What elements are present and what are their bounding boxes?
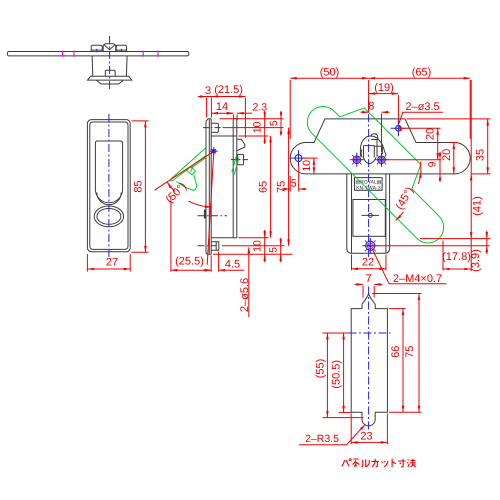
side view: phantom pawl block (green) <box>187 167 196 175</box>
back view: 2-M4x0.7 leader <box>373 250 390 284</box>
back view: inner square <box>353 200 385 237</box>
side view: phantom pawl foot (green) <box>176 175 196 191</box>
front view: dim 27 <box>87 268 130 270</box>
side view: pivot mark <box>212 150 215 153</box>
panel cut: left ext lines <box>323 332 349 334</box>
back view: arm top ext <box>450 142 458 144</box>
svg-text:2–ø3.5: 2–ø3.5 <box>405 101 439 113</box>
back view: 2-dia3.5 leader <box>399 112 403 123</box>
back view: knob neck <box>364 157 377 163</box>
front view: inner bezel <box>90 122 128 249</box>
side view: plate surface mark <box>204 210 206 219</box>
svg-text:20: 20 <box>441 149 453 161</box>
top view: left nut flange line <box>91 49 102 51</box>
svg-text:(19): (19) <box>374 82 394 94</box>
side view: bottom right extension lines <box>239 237 269 239</box>
back view: dim (17.8) extension line <box>442 241 444 271</box>
back view: knob top cap <box>371 134 378 140</box>
back view: dim 20 (lower) <box>453 143 455 174</box>
back view: phantom bottom ext <box>420 238 491 240</box>
back view: bottom screw (M4) <box>366 241 375 250</box>
panel cut: outline <box>351 294 387 426</box>
svg-text:35: 35 <box>475 149 487 161</box>
svg-text:75: 75 <box>276 181 288 193</box>
svg-text:10: 10 <box>252 121 264 133</box>
front view: vertical centerline <box>108 114 110 258</box>
front view: outer bezel <box>87 120 130 252</box>
side view: phantom pawl tip (green) <box>171 178 174 181</box>
side view: phantom pawl edge 1 (green) <box>172 148 206 179</box>
side view: dim 4.5 <box>203 269 211 271</box>
side view: dim 10 (top) <box>264 111 266 144</box>
top view: cam V-notch <box>104 45 116 50</box>
back view: dim 22 ext lines <box>351 255 353 271</box>
panel cut: dim 75 <box>418 294 420 413</box>
front view: oval ring outer <box>94 206 123 227</box>
top view: panel edge tick marks (magenta) <box>62 51 64 57</box>
panel cut: dim 23 <box>351 441 387 443</box>
back view: dim (3.9) <box>486 231 488 254</box>
side view: mid centerline <box>198 215 228 217</box>
panel cut: horizontal centerline <box>349 332 391 334</box>
back view: square center mark <box>368 213 372 217</box>
front view: handle recess <box>95 141 122 203</box>
side view: foot block <box>211 242 219 251</box>
back view: body outer wall <box>347 174 390 253</box>
panel cut: vertical centerline <box>368 287 370 433</box>
svg-text:5: 5 <box>291 177 297 189</box>
back view: screw level ext <box>378 245 490 247</box>
back view: dim 22 <box>352 268 386 270</box>
svg-text:(17.8): (17.8) <box>442 251 471 263</box>
back view: right wing hole (2-dia3.5) <box>396 126 402 132</box>
svg-text:85: 85 <box>133 180 145 192</box>
front view: dim 85 <box>144 121 146 252</box>
top view: flange plate <box>88 76 132 80</box>
svg-text:66: 66 <box>390 346 402 358</box>
side view: dim 75 <box>288 128 290 246</box>
side view: screw block centerline <box>231 159 248 161</box>
svg-text:(41): (41) <box>472 196 484 216</box>
svg-text:(65): (65) <box>412 67 432 79</box>
back view: screw center ext line <box>386 159 442 161</box>
svg-text:9: 9 <box>427 161 439 167</box>
panel cut: title panel-cut-dimensions (kana strokes) <box>342 460 349 466</box>
svg-text:(3.9): (3.9) <box>470 249 482 272</box>
side view: dim (21.5) <box>207 96 246 98</box>
back view: dim (65) <box>369 77 471 79</box>
side view: dim (25.5) <box>171 269 211 271</box>
side view: phantom pawl edge 2 (green) <box>174 155 206 180</box>
back view: dim 5 (left) <box>282 188 290 190</box>
top view: wing bar (plan) <box>7 52 188 56</box>
side view: dim 5 (bottom) <box>280 238 282 262</box>
top view: center stud <box>105 70 115 76</box>
side view: case top edge <box>211 135 237 137</box>
side view: phantom near wall (green) <box>234 158 239 175</box>
svg-text:14: 14 <box>216 101 228 113</box>
svg-text:(50): (50) <box>320 67 340 79</box>
side view: pawl centerline <box>203 127 223 129</box>
panel cut: dim (50.5) <box>343 333 345 412</box>
top view: nut center marks <box>96 49 98 52</box>
back view: 45deg ext <box>420 162 422 172</box>
back view: phantom wing rotated 45deg (green) <box>307 107 443 244</box>
side view: case rear wall <box>233 119 237 238</box>
svg-text:2–R3.5: 2–R3.5 <box>305 433 339 445</box>
back view: knob right step <box>374 140 382 157</box>
svg-text:(55): (55) <box>314 359 326 379</box>
side view: dim 3 <box>198 96 207 98</box>
panel cut: dim 7 <box>355 283 364 285</box>
back view: body inner walls <box>351 174 353 253</box>
side view: dim 10 (bottom) <box>264 230 266 262</box>
side view: dim (25.5) extension line <box>170 196 172 272</box>
back view: left mount screw <box>353 156 361 164</box>
side view: screw block <box>238 154 244 164</box>
top view: right nut flange line <box>116 49 126 51</box>
svg-text:3: 3 <box>205 85 211 97</box>
top view: body below bar <box>92 56 127 76</box>
top view: flange lower trapezoid <box>96 80 123 84</box>
back view: right mount screw <box>378 156 386 164</box>
svg-text:5: 5 <box>268 247 280 253</box>
side view: dim 2.3 <box>229 112 233 114</box>
svg-text:2–ø5.6: 2–ø5.6 <box>239 278 251 312</box>
svg-text:(50.5): (50.5) <box>331 360 343 389</box>
back view: 45deg arc <box>418 171 421 184</box>
back view: dim 10 (left) <box>303 157 318 159</box>
svg-text:(21.5): (21.5) <box>214 84 243 96</box>
svg-text:22: 22 <box>362 257 374 269</box>
svg-text:20: 20 <box>425 128 437 140</box>
svg-text:27: 27 <box>106 256 118 268</box>
svg-text:5: 5 <box>268 120 280 126</box>
back view: dim 8 extension line <box>381 114 383 153</box>
back view: dim (19) <box>369 93 399 95</box>
back view: label plate <box>355 178 383 191</box>
side view: phantom magenta tick <box>235 168 238 171</box>
panel cut: right ext lines <box>372 293 422 295</box>
back view: dim 35 extension lines <box>407 118 491 120</box>
side view: dim 14 <box>211 112 233 114</box>
side view: 50deg angle ray A <box>155 151 214 190</box>
side view: 50deg arc <box>167 182 175 191</box>
panel cut: dim 23 ext lines <box>350 414 352 445</box>
back view: wing outline <box>290 119 470 174</box>
back view: dim 8 <box>361 111 369 113</box>
side view: dim 4.5 extension lines <box>210 256 212 272</box>
front view: dim 27 extension lines <box>86 254 88 272</box>
back view: dim (19) extension line <box>397 95 399 122</box>
svg-text:10: 10 <box>301 160 313 172</box>
side view: case bottom edge <box>211 237 237 239</box>
svg-text:4.5: 4.5 <box>225 258 240 270</box>
back view: dim (41) <box>470 80 472 271</box>
side view: 50deg angle ray B <box>207 151 214 265</box>
side view: panel plate edge-on <box>206 119 211 255</box>
side view: dim 5 (top) <box>280 111 282 136</box>
panel cut: dim 66 <box>402 309 404 413</box>
svg-text:7: 7 <box>365 273 371 285</box>
side view: top right extension lines <box>220 118 284 120</box>
svg-text:10: 10 <box>252 240 264 252</box>
top view: vertical centerline <box>109 36 111 90</box>
back view: left wing hole (2-dia3.5) <box>295 155 302 162</box>
back view: knob inner sides <box>364 146 375 158</box>
back view: dim 35 <box>487 119 489 174</box>
back view: dim 5 ext lines <box>289 176 291 192</box>
back view: knob outer arch <box>360 136 386 155</box>
svg-text:2–M4×0.7: 2–M4×0.7 <box>393 273 442 285</box>
side view: 2-dia5.6 leader <box>248 248 250 318</box>
front view: oval ring inner <box>97 209 121 225</box>
top view: left hex nut <box>91 45 102 51</box>
back view: dim 20 (upper) <box>437 128 439 159</box>
panel cut: dim (55) <box>326 333 328 418</box>
side view: dim 3/(21.5) extension lines <box>206 98 208 118</box>
front view: dim 85 extension lines <box>132 120 149 122</box>
top view: center cam piece <box>103 44 116 52</box>
back view: dim (50)/(65) extension lines <box>289 80 291 139</box>
side view: dim 65 <box>270 136 272 238</box>
front view: recess inner arc <box>97 193 121 205</box>
side view: latch hook <box>237 139 245 151</box>
side view: phantom pawl edge 3 (green) <box>191 157 207 171</box>
svg-text:8: 8 <box>368 101 374 113</box>
side view: foot centerline <box>198 245 217 247</box>
back view: dim 9 <box>439 152 441 182</box>
top view: right hex nut <box>116 45 126 51</box>
back view: dim (50) <box>290 77 368 79</box>
svg-text:23: 23 <box>360 431 372 443</box>
svg-text:(25.5): (25.5) <box>175 255 204 267</box>
back view: dim (17.8) <box>443 268 471 270</box>
back view: hole center ext line <box>402 127 441 129</box>
back view: main centerline <box>368 99 370 259</box>
svg-text:65: 65 <box>258 181 270 193</box>
svg-text:75: 75 <box>404 346 416 358</box>
side view: pawl (closed) <box>211 123 218 132</box>
panel cut: dim 7 ext lines <box>362 286 364 298</box>
back view: knob left detail <box>360 149 363 157</box>
